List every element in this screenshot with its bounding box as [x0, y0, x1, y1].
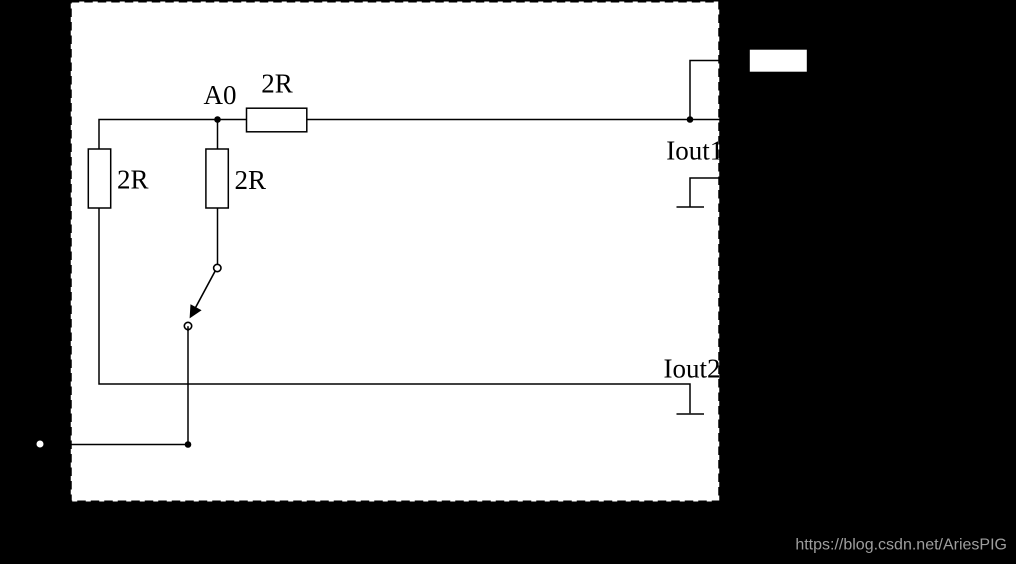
wire: main horizontal rail from left 2R branch through node A0 to right edge — [99, 120, 720, 150]
value label 2R (middle resistor) — [235, 165, 267, 195]
resistor 2R horizontal (series rail resistor) — [247, 108, 307, 132]
net label Iout1 — [666, 136, 723, 166]
wire: node A0 down to middle 2R resistor top — [217, 120, 219, 150]
junction dot at bottom feed — [185, 441, 192, 448]
svg-text:2R: 2R — [261, 69, 293, 99]
wire stub through throw circle — [187, 326, 189, 331]
wire: Iout1 lower stub from right edge to ground — [690, 178, 720, 207]
switch arm with arrowhead — [190, 271, 216, 318]
ground bar of Iout1 stub — [677, 206, 705, 208]
value label 2R (horizontal resistor) — [261, 69, 293, 99]
node A0 junction dot — [214, 116, 221, 123]
switch throw contact circle — [184, 322, 191, 329]
wire: left 2R resistor bottom down and Iout2 rail to ground stub — [99, 208, 690, 413]
svg-text:2R: 2R — [235, 165, 267, 195]
white node dot outside left border — [37, 441, 44, 448]
resistor 2R middle (bit branch resistor) — [206, 149, 228, 208]
wire: middle 2R resistor bottom down to switch pole — [217, 208, 219, 264]
dashed schematic clip box — [71, 2, 720, 502]
svg-text:2R: 2R — [117, 164, 149, 194]
svg-text:A0: A0 — [204, 80, 237, 110]
svg-text:Iout2: Iout2 — [664, 354, 721, 384]
value label 2R (left resistor) — [117, 164, 149, 194]
node dot on rail at right — [687, 116, 694, 123]
switch pole contact circle — [214, 264, 221, 271]
white clipped component box top right — [750, 50, 807, 72]
node label A0 — [204, 80, 237, 110]
ground bar of Iout2 stub — [677, 413, 705, 415]
wire: switch throw down to bottom junction — [187, 327, 189, 445]
wire: right node up and out to Iout1 top stub — [690, 61, 720, 120]
resistor 2R left (terminating resistor) — [88, 149, 110, 208]
svg-text:https://blog.csdn.net/AriesPIG: https://blog.csdn.net/AriesPIG — [795, 537, 1007, 554]
svg-text:Iout1: Iout1 — [666, 136, 723, 166]
net label Iout2 — [664, 354, 721, 384]
wire: bottom feed from left border to junction — [70, 444, 188, 446]
watermark — [795, 537, 1007, 554]
